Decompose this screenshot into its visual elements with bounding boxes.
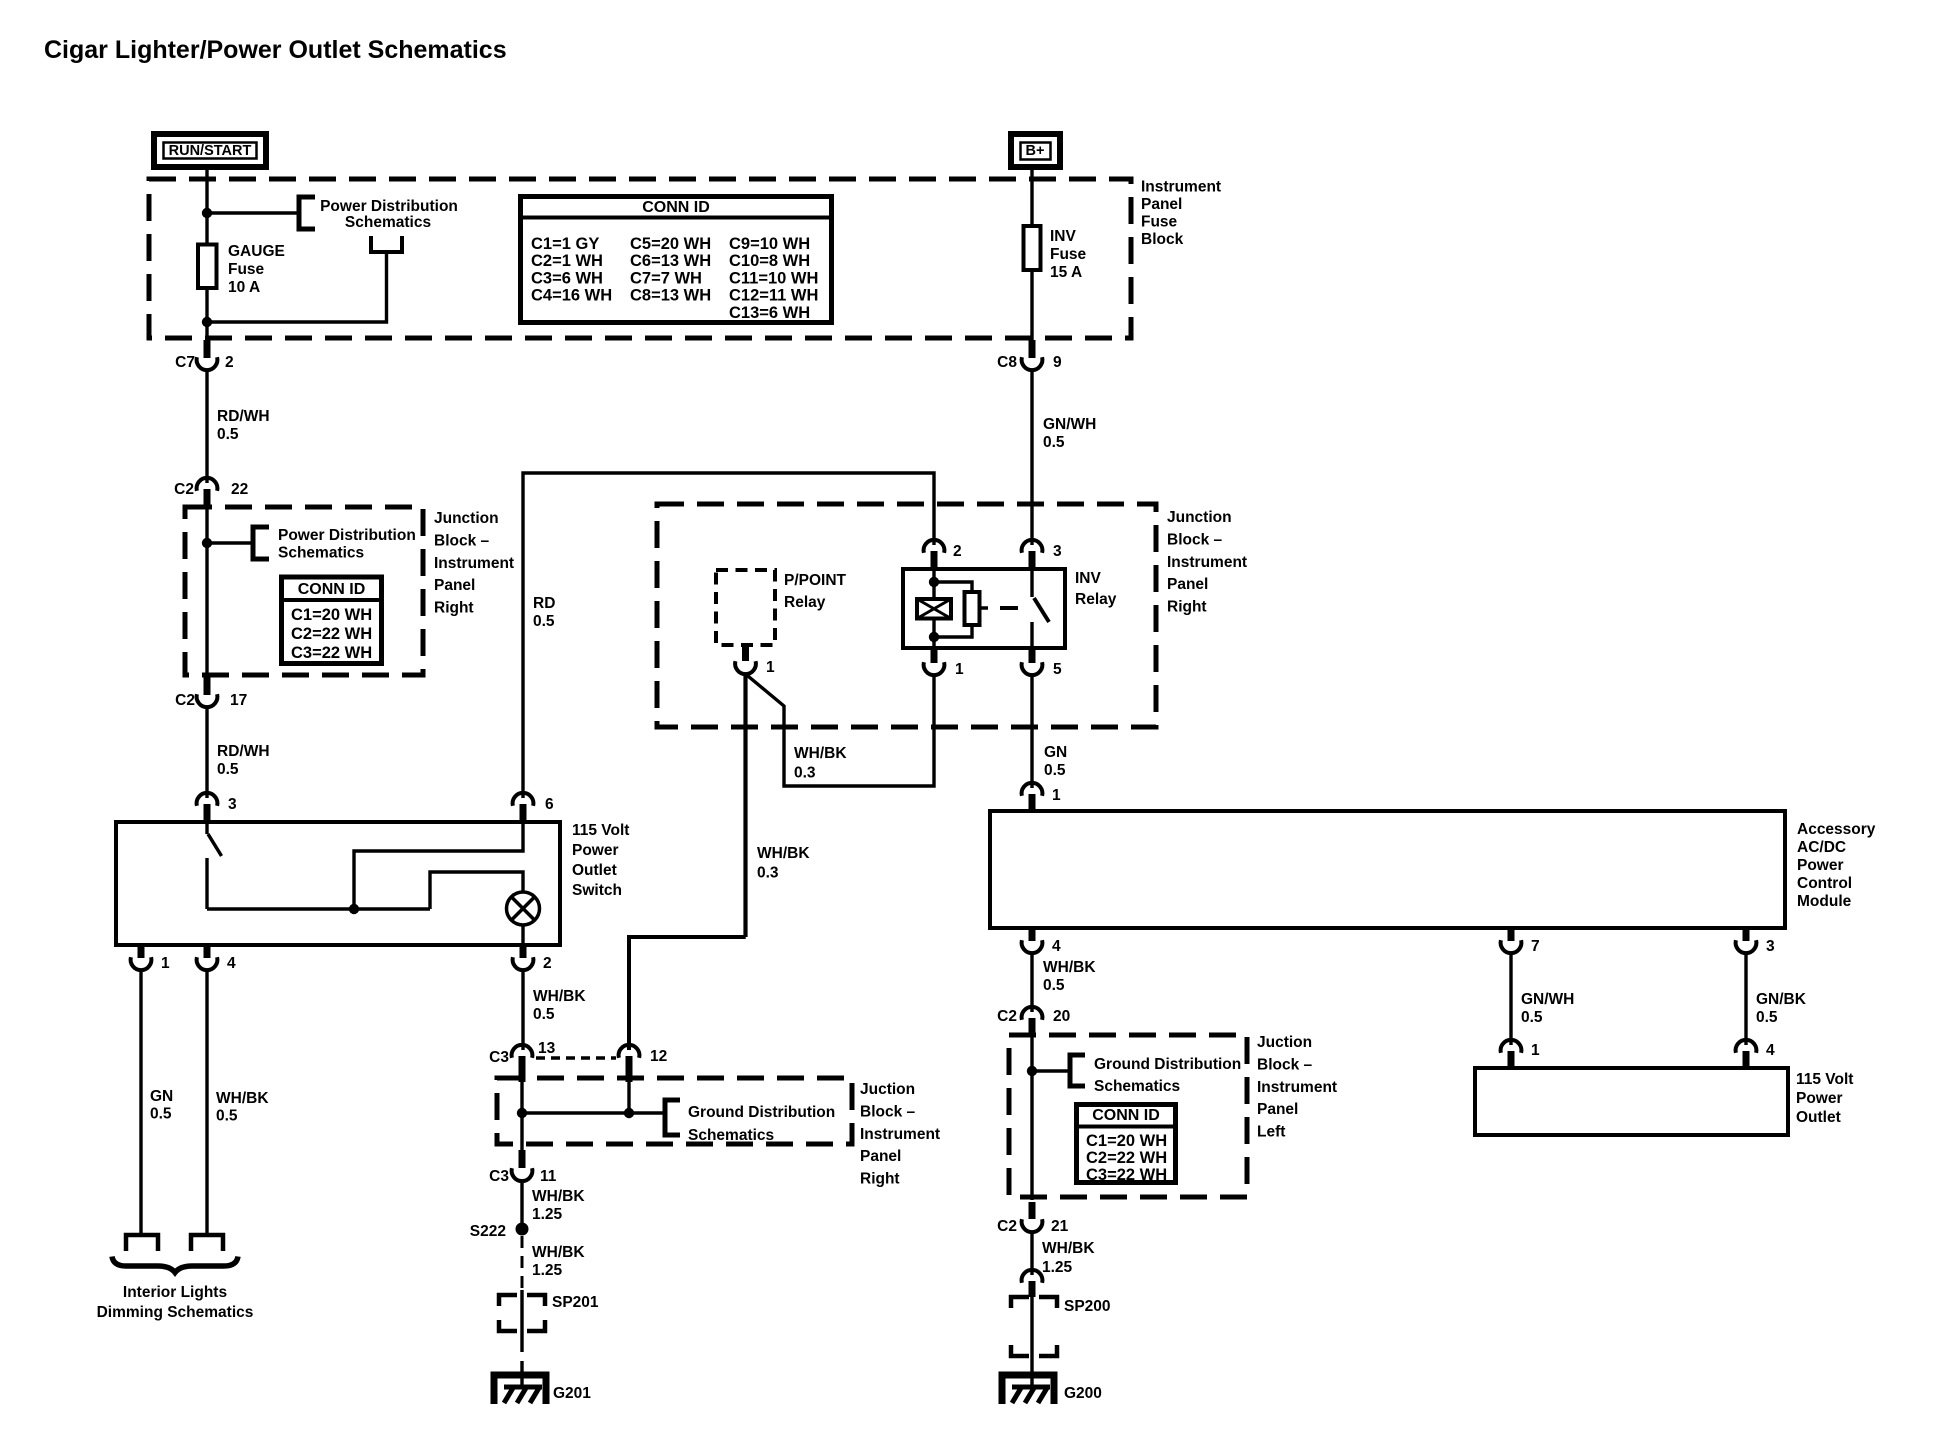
svg-text:7: 7 xyxy=(1531,938,1540,955)
connector splice entry SP200 xyxy=(1022,1270,1043,1297)
power tap RUN/START xyxy=(154,134,266,167)
switch 115 Volt Power Outlet Switch box xyxy=(116,822,560,945)
svg-text:Panel: Panel xyxy=(1167,576,1208,593)
relay INV box xyxy=(903,569,1065,648)
svg-text:WH/BK: WH/BK xyxy=(532,1244,585,1261)
wire to ground distribution bracket (left block) xyxy=(1032,1069,1070,1072)
svg-text:WH/BK: WH/BK xyxy=(533,988,586,1005)
svg-text:GN/BK: GN/BK xyxy=(1756,991,1807,1008)
ground G201 xyxy=(494,1375,546,1404)
wire GN 0.5 (pin 5 to module) xyxy=(1030,676,1033,788)
wire GN/WH 0.5 (module pin 7) xyxy=(1509,955,1512,1045)
svg-text:GN: GN xyxy=(150,1088,173,1105)
terminal interior lights pin 1 xyxy=(126,1235,158,1251)
wire through junction block xyxy=(205,498,208,678)
node INV coil top junction xyxy=(929,577,939,587)
svg-text:C6=13 WH: C6=13 WH xyxy=(630,252,711,270)
label Junction Block Instrument Panel Right (upper) xyxy=(434,510,514,617)
wire WH/BK 0.3 down from P/POINT relay xyxy=(743,674,747,937)
relay P/POINT (dashed box) xyxy=(716,570,775,645)
wire to ground distribution bracket (bottom block) xyxy=(522,1111,665,1114)
svg-text:Instrument: Instrument xyxy=(1167,554,1247,571)
svg-text:G200: G200 xyxy=(1064,1385,1102,1402)
label GN/WH 0.5 (pin 7) xyxy=(1521,991,1574,1026)
svg-text:GN/WH: GN/WH xyxy=(1521,991,1574,1008)
svg-text:Outlet: Outlet xyxy=(1796,1109,1841,1126)
svg-text:Schematics: Schematics xyxy=(345,214,431,231)
svg-text:C10=8 WH: C10=8 WH xyxy=(729,252,810,270)
node junction below GAUGE fuse xyxy=(202,317,212,327)
svg-text:Panel: Panel xyxy=(1141,196,1182,213)
svg-text:115 Volt: 115 Volt xyxy=(572,822,629,839)
connector INV relay pin 3 xyxy=(1022,540,1062,569)
connector switch pin 6 xyxy=(513,793,554,822)
svg-text:WH/BK: WH/BK xyxy=(532,1188,585,1205)
svg-text:Outlet: Outlet xyxy=(572,862,617,879)
wire GN/WH 0.5 (C8-9 to INV relay pin 3) xyxy=(1030,371,1033,545)
connector C3 pin 12 xyxy=(619,1045,668,1082)
svg-text:C8: C8 xyxy=(997,354,1017,371)
svg-text:Relay: Relay xyxy=(784,594,826,611)
svg-text:C7=7 WH: C7=7 WH xyxy=(630,269,702,287)
svg-text:Instrument: Instrument xyxy=(1141,179,1221,196)
svg-text:S222: S222 xyxy=(470,1223,506,1240)
wire RD/WH 0.5 (C2-17 to switch) xyxy=(205,708,208,798)
svg-text:Interior Lights: Interior Lights xyxy=(123,1284,227,1301)
svg-text:13: 13 xyxy=(538,1040,556,1057)
label RD 0.5 xyxy=(533,595,555,630)
svg-text:0.5: 0.5 xyxy=(1521,1009,1543,1026)
label Power Distribution Schematics (junction block) xyxy=(278,527,416,562)
label GN 0.5 xyxy=(150,1088,173,1123)
svg-text:Relay: Relay xyxy=(1075,591,1117,608)
svg-text:GN: GN xyxy=(1044,744,1067,761)
wire B+ to INV fuse xyxy=(1030,167,1033,226)
svg-text:CONN ID: CONN ID xyxy=(1092,1107,1160,1124)
svg-text:Right: Right xyxy=(1167,599,1207,616)
label Junction Block Instrument Panel Right (middle) xyxy=(1167,509,1247,616)
connector INV relay pin 5 xyxy=(1022,648,1062,678)
connector INV relay pin 2 xyxy=(924,540,962,569)
fuse block Instrument Panel Fuse Block (dashed) xyxy=(149,179,1131,338)
label Interior Lights Dimming Schematics xyxy=(97,1284,254,1321)
svg-text:Switch: Switch xyxy=(572,882,622,899)
svg-text:GAUGE: GAUGE xyxy=(228,243,285,260)
svg-text:RD/WH: RD/WH xyxy=(217,408,270,425)
connector INV relay pin 1 xyxy=(924,648,964,678)
svg-text:0.5: 0.5 xyxy=(1756,1009,1778,1026)
svg-text:Block –: Block – xyxy=(860,1103,916,1120)
wire return to fuse output xyxy=(207,252,387,322)
wire switch pin 6 internal xyxy=(354,822,523,909)
label Instrument Panel Fuse Block xyxy=(1141,179,1221,249)
connector C2 pin 22 xyxy=(174,478,248,508)
svg-text:Fuse: Fuse xyxy=(1050,246,1087,263)
svg-text:Block –: Block – xyxy=(1167,531,1223,548)
svg-text:0.5: 0.5 xyxy=(1043,434,1065,451)
svg-text:Power: Power xyxy=(572,842,619,859)
svg-text:1.25: 1.25 xyxy=(532,1206,563,1223)
svg-text:Right: Right xyxy=(434,600,474,617)
junction block Instrument Panel Right upper (dashed) xyxy=(185,507,423,675)
svg-text:C3=6 WH: C3=6 WH xyxy=(531,269,603,287)
connector C3 pin 13 xyxy=(489,1040,555,1082)
svg-text:WH/BK: WH/BK xyxy=(216,1090,269,1107)
svg-text:17: 17 xyxy=(230,692,247,709)
svg-text:Power: Power xyxy=(1796,1090,1843,1107)
node junction (ground distribution left) xyxy=(1027,1066,1037,1076)
label GN/WH 0.5 (upper) xyxy=(1043,416,1096,451)
module Accessory AC/DC Power Control Module box xyxy=(990,811,1785,928)
svg-text:1.25: 1.25 xyxy=(1042,1259,1073,1276)
switch lower contact xyxy=(205,858,208,909)
label G201 xyxy=(553,1385,591,1402)
svg-text:12: 12 xyxy=(650,1048,667,1065)
label Power Distribution Schematics (top) xyxy=(320,198,458,231)
svg-text:3: 3 xyxy=(1053,543,1062,560)
wire WH/BK 1.25 (C3-11 to S222) xyxy=(520,1183,523,1223)
lamp indicator (switch illumination) xyxy=(507,892,540,925)
connector C2 pin 20 xyxy=(997,1007,1070,1035)
wire GN 0.5 (pin 1) xyxy=(139,971,142,1235)
label Accessory AC/DC Power Control Module xyxy=(1797,821,1876,910)
svg-text:Schematics: Schematics xyxy=(278,545,364,562)
wire INV coil bottom xyxy=(932,619,935,649)
svg-text:WH/BK: WH/BK xyxy=(1043,959,1096,976)
svg-text:C12=11 WH: C12=11 WH xyxy=(729,287,818,305)
svg-text:Juction: Juction xyxy=(1257,1034,1312,1051)
svg-text:Power: Power xyxy=(1797,857,1844,874)
wire lamp to pin 2 xyxy=(521,925,524,945)
svg-text:RUN/START: RUN/START xyxy=(169,143,252,159)
label INV Relay xyxy=(1075,570,1117,608)
label RD/WH 0.5 (lower) xyxy=(217,743,270,778)
node junction C3-13 ground link xyxy=(517,1108,527,1118)
svg-text:1: 1 xyxy=(1531,1042,1540,1059)
svg-text:Juction: Juction xyxy=(860,1081,915,1098)
svg-text:INV: INV xyxy=(1075,570,1102,587)
svg-text:0.5: 0.5 xyxy=(1044,762,1066,779)
switch blade pin 3 xyxy=(207,822,222,856)
splice SP201 xyxy=(499,1294,599,1331)
svg-text:21: 21 xyxy=(1051,1218,1069,1235)
svg-text:C4=16 WH: C4=16 WH xyxy=(531,287,612,305)
svg-text:C1=1 GY: C1=1 GY xyxy=(531,235,599,253)
bracket Power Distribution Schematics (junction block) xyxy=(253,527,269,559)
table CONN ID (fuse block) xyxy=(521,197,832,323)
label INV Fuse 15 A xyxy=(1050,228,1087,281)
svg-text:C2: C2 xyxy=(174,481,194,498)
label WH/BK 0.5 (module pin 4) xyxy=(1043,959,1096,994)
node junction at RUN/START feed xyxy=(202,208,212,218)
connector C7 pin 2 xyxy=(175,340,233,371)
wire RD 0.5 xyxy=(523,473,934,798)
svg-text:Module: Module xyxy=(1797,893,1852,910)
svg-text:2: 2 xyxy=(225,354,234,371)
svg-text:C5=20 WH: C5=20 WH xyxy=(630,235,711,253)
svg-text:Schematics: Schematics xyxy=(688,1127,774,1144)
bracket Ground Distribution Schematics (bottom block) xyxy=(665,1100,680,1135)
label WH/BK 0.5 (pin 4 wire) xyxy=(216,1090,269,1125)
svg-text:6: 6 xyxy=(545,796,554,813)
wire C3-13 through block xyxy=(520,1058,523,1150)
connector switch pin 2 xyxy=(513,945,552,972)
power tap B+ xyxy=(1011,134,1060,167)
wire INV coil top xyxy=(932,569,935,599)
svg-text:RD/WH: RD/WH xyxy=(217,743,270,760)
wire RUN/START to GAUGE fuse xyxy=(205,167,208,245)
terminal interior lights pin 4 xyxy=(191,1235,223,1251)
svg-text:RD: RD xyxy=(533,595,555,612)
wire SP200 internal xyxy=(1030,1290,1033,1387)
svg-text:4: 4 xyxy=(1766,1042,1775,1059)
svg-text:0.5: 0.5 xyxy=(1043,977,1065,994)
connector switch pin 4 xyxy=(197,945,236,972)
svg-text:Junction: Junction xyxy=(1167,509,1232,526)
svg-text:GN/WH: GN/WH xyxy=(1043,416,1096,433)
connector P/POINT relay pin 1 xyxy=(735,645,775,676)
table CONN ID (junction block right upper) xyxy=(282,577,382,664)
svg-text:Ground Distribution: Ground Distribution xyxy=(1094,1056,1241,1073)
wire SP201 internal xyxy=(520,1290,523,1387)
label GN/BK 0.5 (pin 3) xyxy=(1756,991,1807,1026)
wire WH/BK 0.5 (pin 4) xyxy=(205,971,208,1235)
connector switch pin 1 xyxy=(131,945,170,972)
svg-text:4: 4 xyxy=(227,955,236,972)
svg-text:2: 2 xyxy=(543,955,552,972)
label WH/BK 1.25 (lower left) xyxy=(532,1244,585,1279)
wire INV fuse to fuse block edge xyxy=(1030,270,1033,340)
svg-text:Panel: Panel xyxy=(434,577,475,594)
svg-text:Block –: Block – xyxy=(1257,1056,1313,1073)
wire WH/BK 0.3 to INV relay coil xyxy=(746,674,935,786)
svg-text:Left: Left xyxy=(1257,1124,1285,1141)
wire RD/WH 0.5 (C7-2 to C2-22) xyxy=(205,371,208,483)
label 115 Volt Power Outlet xyxy=(1796,1071,1853,1126)
connector link C3 13-12 (dashed) xyxy=(536,1056,616,1060)
svg-text:0.3: 0.3 xyxy=(794,765,816,782)
label G200 xyxy=(1064,1385,1102,1402)
svg-text:20: 20 xyxy=(1053,1008,1070,1025)
svg-text:Schematics: Schematics xyxy=(1094,1078,1180,1095)
svg-text:Instrument: Instrument xyxy=(1257,1079,1337,1096)
resistor INV relay (parallel) xyxy=(934,582,980,637)
splice SP200 xyxy=(1011,1297,1111,1356)
svg-text:5: 5 xyxy=(1053,661,1062,678)
label WH/BK 0.3 (lower wire) xyxy=(757,845,810,882)
connector C8 pin 9 xyxy=(997,340,1062,371)
svg-text:0.5: 0.5 xyxy=(150,1106,172,1123)
svg-text:Right: Right xyxy=(860,1171,900,1188)
svg-text:1: 1 xyxy=(955,661,964,678)
svg-text:Panel: Panel xyxy=(1257,1101,1298,1118)
svg-text:Instrument: Instrument xyxy=(434,555,514,572)
svg-text:4: 4 xyxy=(1052,938,1061,955)
ground G200 xyxy=(1002,1375,1054,1404)
svg-text:C11=10 WH: C11=10 WH xyxy=(729,269,818,287)
wire through junction block left xyxy=(1030,1026,1033,1200)
svg-text:Instrument: Instrument xyxy=(860,1126,940,1143)
svg-text:9: 9 xyxy=(1053,354,1062,371)
svg-text:Block –: Block – xyxy=(434,532,490,549)
connector C2 pin 21 xyxy=(997,1202,1068,1235)
junction block Instrument Panel Right middle (dashed) xyxy=(657,504,1156,727)
svg-text:C3=22 WH: C3=22 WH xyxy=(1086,1166,1167,1184)
wire GAUGE fuse to fuse block edge xyxy=(205,288,208,340)
svg-text:C1=20 WH: C1=20 WH xyxy=(291,606,372,624)
svg-text:1: 1 xyxy=(766,659,775,676)
wire GN/BK 0.5 (module pin 3) xyxy=(1744,955,1747,1045)
label Ground Distribution Schematics (bottom block) xyxy=(688,1104,835,1144)
connector module pin 1 xyxy=(1022,783,1061,811)
svg-text:Power Distribution: Power Distribution xyxy=(278,527,416,544)
label WH/BK 1.25 (upper left) xyxy=(532,1188,585,1223)
svg-text:1: 1 xyxy=(1052,787,1061,804)
svg-text:0.5: 0.5 xyxy=(217,761,239,778)
svg-text:INV: INV xyxy=(1050,228,1077,245)
connector module pin 3 xyxy=(1736,928,1775,955)
wire WH/BK 1.25 (S222 to SP201, dashed) xyxy=(521,1236,524,1293)
svg-text:0.5: 0.5 xyxy=(533,613,555,630)
svg-text:Power Distribution: Power Distribution xyxy=(320,198,458,215)
svg-text:CONN ID: CONN ID xyxy=(298,581,366,598)
svg-text:2: 2 xyxy=(953,543,962,560)
svg-text:C2: C2 xyxy=(997,1218,1017,1235)
connector outlet pin 1 xyxy=(1501,1040,1540,1068)
svg-text:1: 1 xyxy=(161,955,170,972)
node junction C3-12 ground link xyxy=(624,1108,634,1118)
wire WH/BK 0.5 (pin 2) xyxy=(521,971,524,1050)
svg-text:Fuse: Fuse xyxy=(228,261,265,278)
bracket Ground Distribution Schematics (left block) xyxy=(1070,1055,1085,1086)
label P/POINT Relay xyxy=(784,572,847,611)
label GAUGE Fuse 10 A xyxy=(228,243,285,296)
wire WH/BK 0.5 (module pin 4) xyxy=(1030,954,1033,1012)
svg-text:CONN ID: CONN ID xyxy=(642,199,710,216)
connector C3 pin 11 xyxy=(489,1150,557,1185)
svg-text:C2=1 WH: C2=1 WH xyxy=(531,252,603,270)
label Ground Distribution Schematics (left block) xyxy=(1094,1056,1241,1095)
svg-text:B+: B+ xyxy=(1026,143,1045,159)
svg-text:22: 22 xyxy=(231,481,248,498)
wire C3-12 stub into block xyxy=(627,1058,630,1113)
node junction in junction block xyxy=(202,538,212,548)
svg-text:0.5: 0.5 xyxy=(217,426,239,443)
junction block Instrument Panel Right bottom (dashed) xyxy=(497,1078,852,1144)
connector switch pin 3 xyxy=(197,793,237,822)
svg-text:Fuse: Fuse xyxy=(1141,214,1178,231)
wire WH/BK 0.3 to C3 pin 12 xyxy=(629,937,746,1050)
svg-text:Junction: Junction xyxy=(434,510,499,527)
splice S222 xyxy=(470,1223,529,1241)
wire WH/BK 1.25 (to SP200) xyxy=(1030,1233,1033,1275)
label WH/BK 0.5 (pin 2 wire) xyxy=(533,988,586,1023)
node INV coil bottom junction xyxy=(929,632,939,642)
svg-text:C3: C3 xyxy=(489,1168,509,1185)
svg-text:15 A: 15 A xyxy=(1050,264,1082,281)
connector module pin 7 xyxy=(1501,928,1540,955)
svg-text:Control: Control xyxy=(1797,875,1852,892)
svg-text:WH/BK: WH/BK xyxy=(794,745,847,762)
svg-text:Cigar Lighter/Power Outlet Sch: Cigar Lighter/Power Outlet Schematics xyxy=(44,36,507,64)
fuse INV 15 A xyxy=(1024,226,1041,270)
svg-text:C9=10 WH: C9=10 WH xyxy=(729,235,810,253)
bracket Power Distribution Schematics (top) xyxy=(299,197,315,229)
svg-text:C3=22 WH: C3=22 WH xyxy=(291,644,372,662)
svg-text:Panel: Panel xyxy=(860,1148,901,1165)
svg-text:3: 3 xyxy=(228,796,237,813)
svg-text:115 Volt: 115 Volt xyxy=(1796,1071,1853,1088)
svg-text:Dimming Schematics: Dimming Schematics xyxy=(97,1304,254,1321)
svg-text:AC/DC: AC/DC xyxy=(1797,839,1846,856)
node switch internal junction xyxy=(349,904,359,914)
wire switch internal bottom xyxy=(207,907,430,910)
svg-text:C2: C2 xyxy=(175,692,195,709)
junction block Instrument Panel Left (dashed) xyxy=(1009,1035,1247,1197)
brace interior lights xyxy=(112,1257,238,1273)
svg-text:Ground Distribution: Ground Distribution xyxy=(688,1104,835,1121)
connector outlet pin 4 xyxy=(1736,1040,1775,1068)
fuse GAUGE 10 A xyxy=(198,245,217,289)
svg-text:P/POINT: P/POINT xyxy=(784,572,847,589)
wire to Power Distribution Schematics bracket (junction block) xyxy=(207,541,253,544)
label GN 0.5 xyxy=(1044,744,1067,779)
svg-text:C3: C3 xyxy=(489,1049,509,1066)
svg-text:G201: G201 xyxy=(553,1385,591,1402)
switch contact INV relay xyxy=(1032,569,1049,648)
svg-text:11: 11 xyxy=(540,1168,557,1185)
return symbol Power Distribution Schematics xyxy=(371,236,402,252)
svg-text:C13=6 WH: C13=6 WH xyxy=(729,304,810,322)
svg-text:Block: Block xyxy=(1141,231,1184,248)
coil INV relay xyxy=(917,599,951,619)
connector module pin 4 xyxy=(1022,928,1061,955)
svg-text:C2=22 WH: C2=22 WH xyxy=(1086,1149,1167,1167)
svg-text:0.3: 0.3 xyxy=(757,865,779,882)
svg-text:SP200: SP200 xyxy=(1064,1298,1111,1315)
svg-text:1.25: 1.25 xyxy=(532,1262,563,1279)
svg-text:10 A: 10 A xyxy=(228,279,260,296)
title xyxy=(44,36,507,64)
svg-text:SP201: SP201 xyxy=(552,1294,599,1311)
svg-text:C2: C2 xyxy=(997,1008,1017,1025)
label WH/BK 1.25 (right) xyxy=(1042,1240,1095,1276)
label WH/BK 0.3 (coil wire) xyxy=(794,745,847,782)
svg-text:WH/BK: WH/BK xyxy=(757,845,810,862)
wire to Power Distribution Schematics bracket xyxy=(207,211,299,214)
label RD/WH 0.5 (upper) xyxy=(217,408,270,443)
outlet 115 Volt Power Outlet box xyxy=(1475,1068,1788,1135)
svg-text:C1=20 WH: C1=20 WH xyxy=(1086,1132,1167,1150)
label Juction Block Instrument Panel Right (bottom) xyxy=(860,1081,940,1188)
connector C2 pin 17 xyxy=(175,677,247,709)
svg-text:C7: C7 xyxy=(175,354,195,371)
svg-text:C8=13 WH: C8=13 WH xyxy=(630,287,711,305)
svg-text:0.5: 0.5 xyxy=(533,1006,555,1023)
table CONN ID (junction block left) xyxy=(1077,1105,1176,1185)
svg-text:WH/BK: WH/BK xyxy=(1042,1240,1095,1257)
label Juction Block Instrument Panel Left xyxy=(1257,1034,1337,1141)
svg-text:3: 3 xyxy=(1766,938,1775,955)
svg-text:C2=22 WH: C2=22 WH xyxy=(291,625,372,643)
link relay actuator dashes xyxy=(980,606,1019,610)
label 115 Volt Power Outlet Switch xyxy=(572,822,629,899)
svg-text:0.5: 0.5 xyxy=(216,1108,238,1125)
wire to indicator lamp xyxy=(430,872,523,909)
svg-text:Accessory: Accessory xyxy=(1797,821,1876,838)
